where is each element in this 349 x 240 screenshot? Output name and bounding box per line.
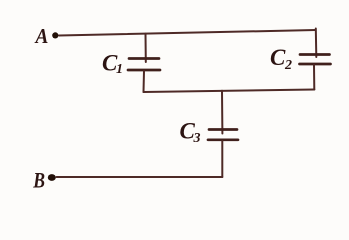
- svg-text:B: B: [32, 169, 45, 193]
- svg-text:3: 3: [193, 131, 201, 146]
- svg-text:2: 2: [284, 58, 292, 73]
- svg-text:1: 1: [116, 62, 123, 77]
- svg-text:C: C: [270, 45, 286, 70]
- svg-text:A: A: [34, 25, 49, 48]
